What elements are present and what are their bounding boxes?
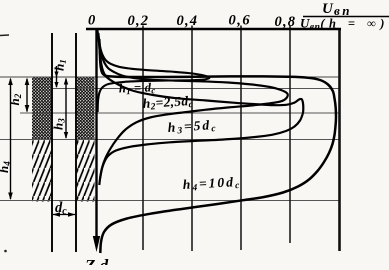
small mark bottom-left [4, 250, 7, 253]
svg-text:0,4: 0,4 [177, 13, 199, 29]
fraction bar [303, 16, 389, 18]
svg-text:h1 = dc: h1 = dc [119, 80, 156, 96]
hatch left band diagonal [32, 140, 52, 202]
grid vertical 0.6 [240, 26, 242, 251]
bed line top y77 [0, 76, 339, 78]
curve h4 [99, 39, 336, 253]
Z axis [95, 28, 97, 240]
dimension arrow h2 [7, 78, 29, 113]
bed line h4 bottom y200.5 [0, 200, 339, 202]
curve h1 [98, 30, 210, 112]
dimension arrow h3 [51, 78, 69, 140]
small dash left margin [0, 34, 9, 37]
top axis [86, 28, 341, 30]
svg-text:0,8: 0,8 [275, 14, 297, 30]
grid vertical 0.4 [191, 26, 193, 252]
svg-text:0,2: 0,2 [128, 13, 150, 29]
hatch right band cross [77, 77, 95, 140]
grid vertical 0.8 [289, 26, 291, 244]
dimension arrow h4 (far left) [0, 78, 13, 201]
grid vertical 0.2 [142, 26, 144, 251]
dimension arrow h1 [52, 59, 68, 88]
svg-text:Z d: Z d [84, 256, 109, 265]
dimension dc at bottom [53, 200, 76, 217]
bed line h3 bottom y139.5 [0, 139, 339, 141]
svg-text:h4: h4 [0, 161, 12, 173]
borehole left wall [51, 33, 53, 252]
hatch right band diagonal [77, 140, 95, 202]
curve h3 [99, 41, 303, 185]
svg-text:0,6: 0,6 [229, 13, 252, 29]
right border line 1.0 [338, 28, 341, 251]
svg-text:0: 0 [88, 13, 95, 29]
borehole right wall [75, 33, 77, 252]
hatch left band cross [32, 77, 52, 140]
bed line h1 bottom y88.5 [50, 88, 339, 90]
svg-text:Uвп: Uвп [322, 1, 352, 18]
bed line h2 bottom y113 [20, 112, 339, 114]
Z axis arrowhead [93, 236, 100, 252]
curve h2 [98, 33, 287, 178]
